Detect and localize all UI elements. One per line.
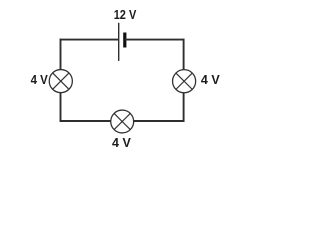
svg-text:4 V: 4 V (112, 136, 131, 150)
battery B1 short thick plate (123, 33, 126, 48)
svg-text:12 V: 12 V (114, 8, 137, 22)
battery B1 long plate (118, 23, 120, 61)
wire bottom-left segment (60, 120, 111, 122)
wire left upper segment (60, 39, 62, 70)
lamp L1 cross (53, 73, 69, 89)
wire left lower segment (60, 92, 62, 122)
svg-text:4 V: 4 V (31, 73, 49, 87)
lamp L1 left circle (49, 70, 72, 93)
lamp L3 bottom circle (111, 110, 134, 133)
wire top-right segment (125, 39, 185, 41)
wire right lower segment (183, 92, 185, 122)
lamp L2 right circle (173, 70, 196, 93)
wire bottom-right segment (133, 120, 184, 122)
lamp L3 cross (114, 113, 130, 129)
wire top-left segment (60, 39, 119, 41)
svg-text:4 V: 4 V (201, 73, 220, 87)
lamp L2 cross (176, 73, 192, 89)
wire right upper segment (183, 39, 185, 70)
